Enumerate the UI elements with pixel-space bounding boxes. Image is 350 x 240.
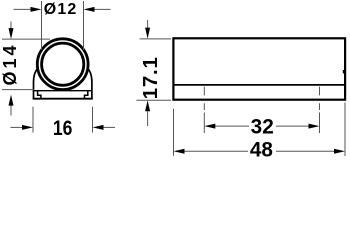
front view base top line bbox=[34, 90, 92, 92]
dim D12 extension line left bbox=[41, 1, 43, 50]
dim 16 left arrow bbox=[11, 126, 25, 128]
dim 48 extension line right bbox=[344, 103, 346, 157]
dim 16 right arrow bbox=[101, 126, 115, 128]
svg-text:Ø12: Ø12 bbox=[44, 1, 77, 18]
svg-text:17.1: 17.1 bbox=[140, 57, 162, 99]
front view left notch step bbox=[38, 91, 41, 99]
side view hole centerline right bbox=[319, 87, 321, 96]
ring inner circle (D12) bbox=[42, 43, 84, 85]
dim 17.1 extension line top bbox=[140, 38, 172, 40]
dim 48 line with inward arrows bbox=[182, 150, 248, 152]
front view right skirt wall bbox=[88, 69, 92, 99]
dim D14 top arrow bbox=[10, 22, 12, 30]
svg-text:Ø14: Ø14 bbox=[0, 46, 20, 86]
side view hole centerline left bbox=[203, 87, 205, 96]
front view left skirt wall bbox=[34, 69, 38, 99]
dim 17.1 extension line bottom bbox=[137, 99, 172, 101]
dim 48 extension line left bbox=[173, 109, 175, 156]
dim 32 extension dashes left bbox=[203, 103, 205, 110]
dim D12 extension line right bbox=[83, 1, 85, 50]
dim 17.1 bottom arrow bbox=[147, 111, 149, 126]
front view right notch step bbox=[85, 91, 88, 99]
svg-text:48: 48 bbox=[250, 138, 273, 161]
dim 32 extension dashes right bbox=[319, 103, 321, 110]
svg-text:32: 32 bbox=[251, 115, 274, 138]
dim D14 extension line bottom bbox=[2, 89, 34, 91]
dim D12 left arrow bbox=[14, 8, 34, 10]
dim D14 extension line top bbox=[2, 38, 50, 40]
ring outer circle (D14) bbox=[37, 39, 88, 90]
dim 17.1 top arrow bbox=[147, 20, 149, 28]
dim 32 line with outward arrows bbox=[213, 125, 249, 127]
side view body rectangle bbox=[173, 38, 345, 99]
side view base strip line bbox=[173, 84, 345, 86]
side view right edge step nub bbox=[343, 70, 345, 73]
dim D12 right arrow bbox=[92, 8, 111, 10]
dim 16 extension line right bbox=[92, 107, 94, 133]
dim 16 extension line left bbox=[32, 107, 34, 133]
dim D14 bottom arrow bbox=[10, 105, 12, 116]
front view base bottom edge bbox=[33, 98, 93, 100]
svg-text:16: 16 bbox=[53, 117, 73, 141]
